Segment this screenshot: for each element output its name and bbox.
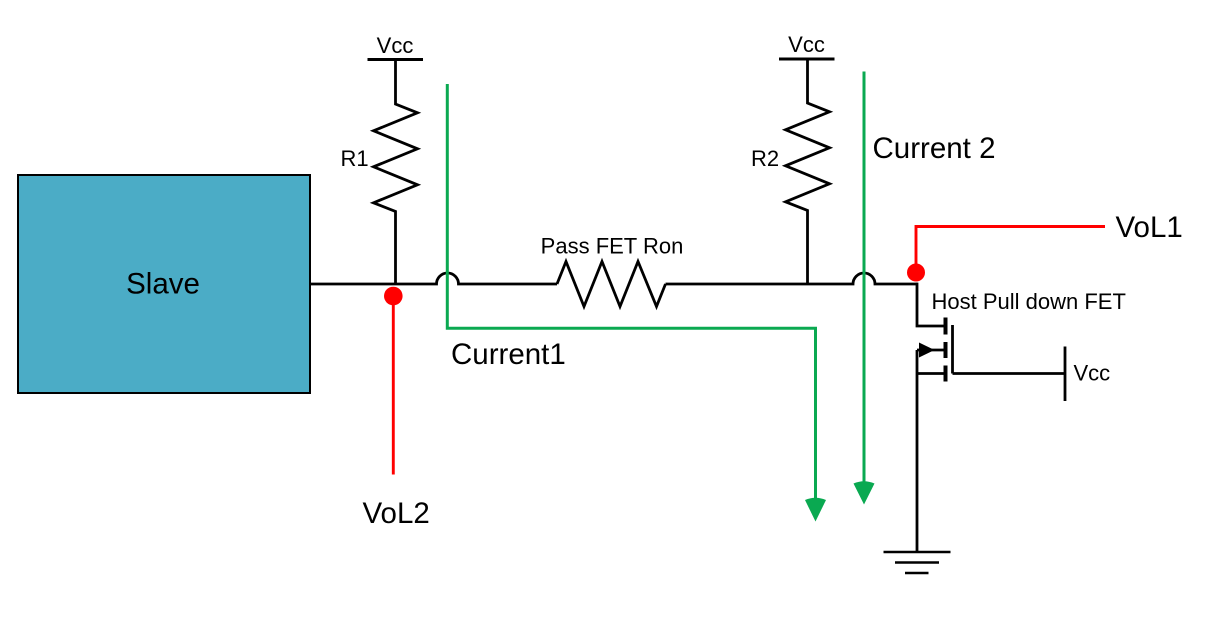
- node VoL1 red dot: [907, 264, 925, 282]
- power symbol Vcc (R2): [779, 58, 835, 61]
- svg-text:Slave: Slave: [126, 268, 200, 301]
- svg-text:Pass FET Ron: Pass FET Ron: [541, 234, 684, 259]
- transistor Q1 Host Pull down FET : drain wire: [917, 283, 946, 326]
- ground: [884, 552, 951, 573]
- wire main bus with crossover hops: [310, 273, 557, 284]
- probe VoL1 red wire: [916, 227, 1105, 273]
- transistor Q1 gate line: [951, 325, 954, 374]
- svg-text:Current1: Current1: [451, 338, 566, 371]
- wire gate to Vcc: [953, 372, 1066, 375]
- wire main bus right section with hop: [666, 273, 918, 284]
- current arrow Current 2: [863, 72, 866, 485]
- svg-text:R1: R1: [340, 146, 368, 171]
- resistor Pass FET Ron: [557, 262, 666, 307]
- transistor Q1 channel top segment: [944, 318, 948, 335]
- transistor Q1 channel middle segment: [944, 342, 948, 358]
- svg-text:Current 2: Current 2: [873, 132, 996, 165]
- svg-text:Vcc: Vcc: [788, 32, 825, 57]
- current arrow Current1: [447, 84, 815, 500]
- svg-text:R2: R2: [751, 146, 779, 171]
- svg-text:VoL1: VoL1: [1116, 211, 1183, 244]
- node VoL2 red dot: [384, 287, 403, 306]
- svg-text:Host Pull down FET: Host Pull down FET: [932, 289, 1126, 314]
- svg-text:Vcc: Vcc: [1074, 361, 1111, 386]
- wire source to ground: [916, 350, 919, 552]
- svg-text:Vcc: Vcc: [377, 33, 414, 58]
- power symbol Vcc (R1): [368, 58, 424, 61]
- resistor R1: [374, 60, 418, 285]
- resistor R2: [786, 59, 830, 284]
- transistor Q1 source wire: [917, 372, 946, 375]
- probe VoL2 red wire: [392, 296, 395, 475]
- transistor Q1 bulk arrow: [917, 349, 946, 352]
- svg-text:VoL2: VoL2: [363, 497, 430, 530]
- power symbol Vcc (gate): [1064, 347, 1067, 402]
- slave block U1: [18, 175, 310, 393]
- transistor Q1 channel bottom segment: [944, 366, 948, 382]
